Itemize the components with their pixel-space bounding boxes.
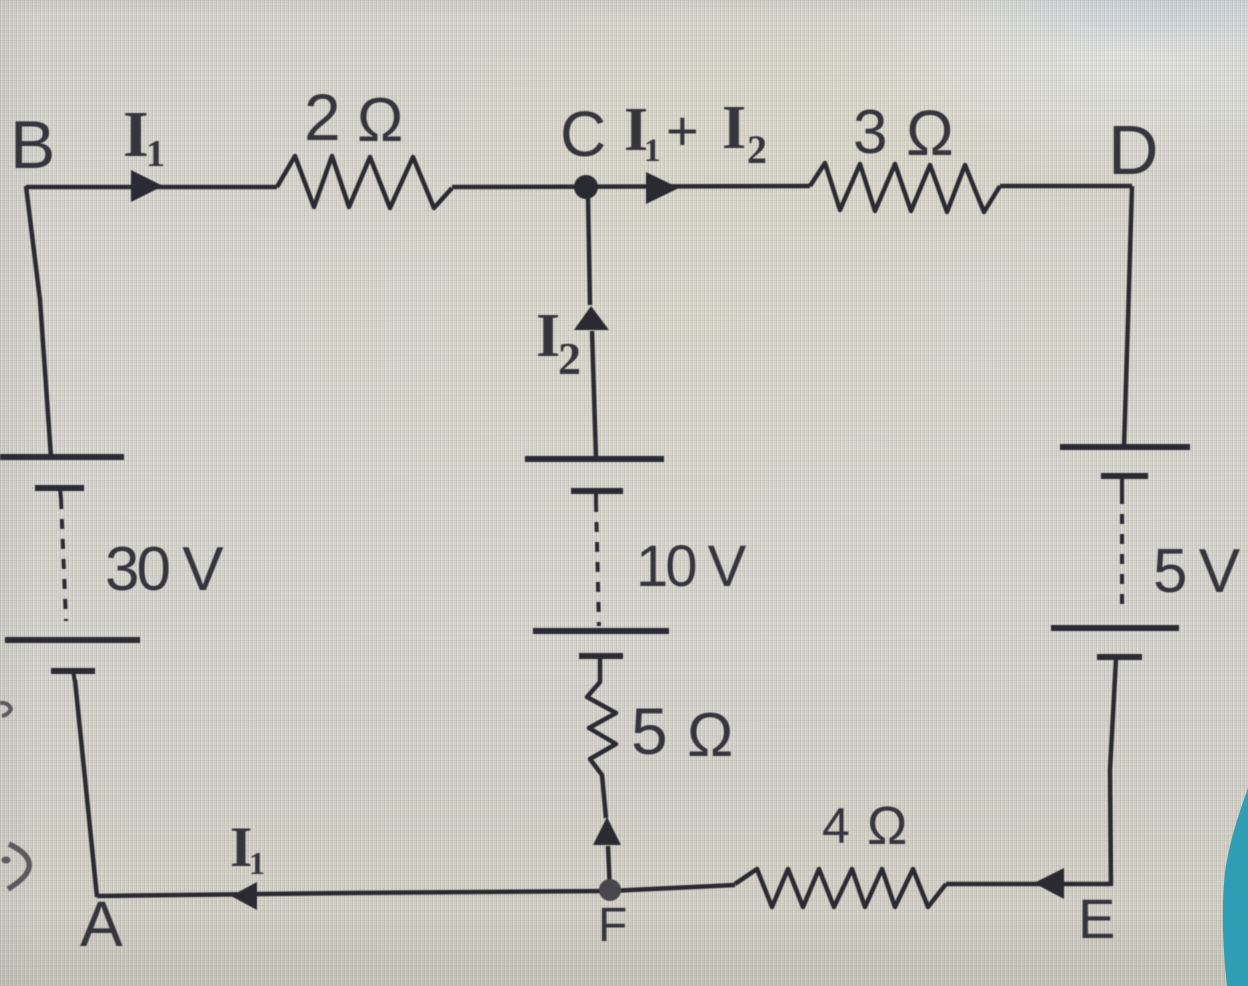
- svg-text:1: 1: [146, 133, 165, 175]
- svg-text:30 V: 30 V: [105, 535, 224, 604]
- svg-text:1: 1: [644, 133, 661, 169]
- svg-text:+: +: [666, 99, 699, 162]
- svg-text:I: I: [536, 302, 560, 370]
- svg-text:1: 1: [249, 845, 265, 881]
- svg-text:5 V: 5 V: [1153, 537, 1241, 606]
- svg-text:I: I: [123, 98, 149, 171]
- svg-text:Ω: Ω: [357, 86, 403, 155]
- svg-text:3: 3: [853, 98, 887, 167]
- svg-text:F: F: [598, 899, 627, 952]
- svg-text:D: D: [1108, 111, 1159, 189]
- svg-text:5: 5: [631, 694, 668, 768]
- svg-text:10 V: 10 V: [636, 534, 747, 599]
- svg-text:B: B: [10, 107, 55, 183]
- svg-text:2: 2: [747, 127, 767, 172]
- svg-text:2: 2: [558, 333, 581, 384]
- svg-text:E: E: [1078, 887, 1115, 950]
- svg-text:Ω: Ω: [867, 796, 907, 856]
- svg-text:C: C: [560, 98, 606, 170]
- svg-text:I: I: [722, 94, 746, 162]
- svg-text:Ω: Ω: [906, 97, 954, 169]
- svg-text:2: 2: [304, 80, 341, 154]
- svg-text:4: 4: [822, 798, 850, 854]
- svg-text:A: A: [80, 888, 123, 960]
- svg-text:Ω: Ω: [687, 701, 733, 770]
